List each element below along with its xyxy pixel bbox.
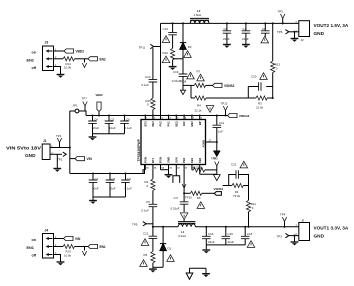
- svg-text:FB1: FB1: [190, 157, 194, 163]
- test point TP7: [82, 97, 88, 111]
- svg-text:GND: GND: [314, 31, 325, 36]
- svg-text:1uF: 1uF: [218, 130, 223, 134]
- svg-text:PV2: PV2: [159, 121, 163, 127]
- svg-text:PGN: PGN: [143, 157, 147, 163]
- capacitor C21 (fb1 zero): [229, 162, 249, 185]
- resistor R13 10.0k: [63, 244, 75, 257]
- svg-text:J2: J2: [301, 38, 305, 42]
- svg-text:VSNS2: VSNS2: [224, 84, 235, 88]
- svg-text:VBD2: VBD2: [96, 93, 104, 97]
- svg-text:BT1: BT1: [151, 157, 155, 163]
- capacitor C13 (snubber): [163, 22, 177, 48]
- test point TP3: [277, 233, 299, 238]
- svg-text:FB2: FB2: [198, 157, 202, 163]
- svg-text:GND: GND: [167, 157, 171, 163]
- svg-text:EN2: EN2: [190, 121, 194, 127]
- capacitor C14 0.01uF (PH2 ac): [172, 70, 188, 86]
- svg-text:C12: C12: [143, 231, 149, 235]
- capacitor C5 10uF: [105, 114, 116, 133]
- VIN bus vertical wire: [69, 111, 71, 174]
- text VOUT1: [314, 225, 349, 238]
- test point stub on EN1 wire: [82, 247, 86, 256]
- svg-text:C20: C20: [251, 75, 257, 79]
- test point TP8: [211, 156, 219, 174]
- connector J4 (EN1 jumper): [43, 229, 58, 259]
- svg-text:22uF: 22uF: [208, 240, 215, 244]
- svg-text:PH1: PH1: [182, 157, 186, 163]
- net label VSNS1: [214, 187, 224, 195]
- capacitor C20 (fb zero): [248, 75, 272, 98]
- inductor L1 3.3uH: [178, 222, 195, 238]
- wire snubber1/D1 ground bus: [153, 266, 163, 268]
- wire C21 left node to VSNS1 area: [223, 185, 229, 187]
- svg-text:VOUT1 3.3V, 3A: VOUT1 3.3V, 3A: [314, 225, 349, 230]
- svg-text:C9: C9: [224, 27, 228, 31]
- note triangle above L1: [180, 213, 188, 220]
- svg-text:12: 12: [177, 167, 180, 169]
- test point TP5: [278, 9, 285, 24]
- svg-text:PH2: PH2: [151, 121, 155, 127]
- resistor R8 22.1k (fb1): [192, 165, 217, 172]
- ground below C1: [89, 197, 97, 204]
- note triangle below R10: [162, 56, 170, 63]
- net label VREG8: [227, 113, 250, 118]
- test point TP2: [57, 152, 66, 162]
- junction dots on VIN rail: [144, 115, 200, 117]
- note triangle below R5: [140, 260, 148, 267]
- svg-text:PGN: PGN: [159, 157, 163, 163]
- connector J3 (EN2 jumper): [43, 41, 58, 71]
- wire joining C1-C3 bottoms: [93, 196, 126, 198]
- svg-text:22uF: 22uF: [228, 240, 235, 244]
- capacitor C15 22uF: [222, 226, 235, 245]
- svg-text:EN2: EN2: [27, 58, 34, 62]
- svg-text:J4: J4: [45, 229, 49, 233]
- capacitor C10 0.1uF (bypass chain): [142, 48, 158, 98]
- inductor L2 1.5uH: [190, 9, 209, 23]
- wire joining C4-C6 bottoms: [93, 133, 125, 135]
- svg-text:PV1: PV1: [167, 121, 171, 127]
- svg-text:VIN: VIN: [87, 157, 93, 161]
- svg-text:TP9: TP9: [132, 222, 138, 226]
- svg-text:0.1uF: 0.1uF: [142, 83, 150, 87]
- svg-text:TPS54386PWP: TPS54386PWP: [137, 138, 141, 161]
- U1 top pin names: [143, 121, 201, 127]
- wire VIN line (bottom): [70, 165, 145, 174]
- svg-text:TP4: TP4: [280, 212, 286, 216]
- ground bus under U1 pins 14,13: [161, 170, 173, 178]
- wire VOUT1 rail: [195, 226, 298, 228]
- svg-text:0.1uF: 0.1uF: [125, 126, 133, 130]
- wire U1 pin16 to VIN line: [143, 170, 145, 174]
- ground drop from J1 pin2: [56, 154, 58, 168]
- svg-text:3.3uH: 3.3uH: [178, 234, 186, 238]
- svg-text:R5: R5: [144, 253, 148, 257]
- svg-text:EN2: EN2: [100, 57, 106, 61]
- resistor R5 (snubber1): [144, 251, 155, 267]
- test point TP1: [56, 134, 62, 147]
- wire joining C16-C18 bottoms: [206, 244, 245, 246]
- note triangle below C12: [141, 239, 149, 246]
- test point TP6: [277, 30, 299, 34]
- svg-text:C1: C1: [95, 177, 99, 181]
- ground below snubber: [169, 67, 177, 70]
- svg-text:13: 13: [169, 167, 172, 169]
- ground below snubber1: [149, 267, 157, 272]
- svg-text:J1: J1: [43, 139, 47, 143]
- svg-text:0.01uF: 0.01uF: [171, 207, 180, 211]
- wire snubber to D2 anode: [173, 58, 183, 60]
- note triangles near R7: [187, 72, 195, 79]
- wire J4 pin1 to VIN label: [54, 238, 64, 240]
- net label VBD2: [64, 49, 84, 54]
- svg-text:TP12: TP12: [221, 102, 228, 106]
- ground below J1: [53, 169, 61, 172]
- svg-text:0: 0: [147, 184, 149, 188]
- net label VSNS2: [213, 83, 235, 88]
- svg-text:VREG8: VREG8: [239, 114, 250, 118]
- ground below C9: [223, 45, 231, 48]
- svg-text:off: off: [32, 66, 37, 70]
- ground arrow below TP14 node: [180, 85, 185, 94]
- svg-text:C10: C10: [145, 75, 151, 79]
- test point TP11: [139, 44, 161, 49]
- svg-text:C18: C18: [247, 232, 253, 236]
- svg-text:TP6: TP6: [277, 30, 283, 34]
- U1 bottom pin stubs: [145, 165, 199, 202]
- net label VIN (J4): [64, 236, 82, 241]
- svg-text:R8 22.1k: R8 22.1k: [192, 165, 203, 169]
- svg-text:SEQ: SEQ: [174, 121, 178, 127]
- label on / EN1 / off: [27, 238, 37, 257]
- ground below C16: [202, 245, 210, 254]
- svg-text:C16: C16: [208, 232, 214, 236]
- wire VSNS2 node down to R4 row: [190, 85, 192, 98]
- ground below C7: [242, 45, 250, 48]
- test point stub on EN2 wire: [82, 59, 86, 68]
- wire U1 pin11 chain (PH1 sense): [182, 184, 186, 194]
- wire J1 pin1 to VIN bus: [50, 147, 70, 149]
- svg-text:AGND: AGND: [202, 140, 206, 148]
- net label VBD2 (rail): [96, 93, 104, 117]
- U1 top pin stubs: [145, 116, 199, 120]
- note triangle beside C21: [240, 161, 248, 168]
- svg-text:16: 16: [146, 167, 149, 169]
- wire PH2 vertical (to top rail): [160, 23, 162, 115]
- svg-text:VSNS1: VSNS1: [214, 187, 224, 191]
- wire J4 pin2: [54, 246, 64, 248]
- capacitor C1 10uF: [89, 172, 99, 197]
- svg-text:10.0k: 10.0k: [64, 253, 72, 257]
- resistor R1 73.2k: [229, 183, 249, 198]
- wire U1 pin9 to agnd arrow: [200, 173, 217, 175]
- wire top rail PH2/VOUT2: [161, 22, 299, 24]
- op-amp U1 TPS54386PWP body: [137, 120, 206, 165]
- capacitor C7 22uF: [242, 22, 251, 44]
- svg-text:BP: BP: [198, 121, 202, 125]
- test point TP4: [280, 212, 287, 227]
- diode D2: [180, 22, 192, 58]
- svg-text:0: 0: [276, 67, 278, 71]
- svg-text:C2: C2: [112, 177, 116, 181]
- wire J3 pin2: [54, 58, 64, 60]
- svg-text:BT2: BT2: [143, 121, 147, 127]
- ground below J2 pin1: [291, 31, 299, 42]
- resistor R15 0 (bypass chain): [146, 98, 155, 117]
- svg-text:11: 11: [185, 167, 188, 169]
- capacitor C17 0.01uF (PH1 ac): [171, 202, 189, 212]
- svg-text:VIN 5Vto 18V: VIN 5Vto 18V: [6, 146, 41, 151]
- svg-text:10uF: 10uF: [93, 126, 100, 130]
- svg-text:0: 0: [252, 206, 254, 210]
- test point TP9: [132, 222, 153, 227]
- svg-text:73.2k: 73.2k: [233, 194, 241, 198]
- connector J2: [296, 21, 310, 42]
- svg-text:JP1: JP1: [73, 104, 78, 108]
- svg-text:10uF: 10uF: [109, 126, 116, 130]
- wire J3 pin1 to VBD2: [54, 50, 65, 52]
- resistor R6 (to VSNS1): [184, 191, 214, 200]
- svg-text:C15: C15: [228, 232, 234, 236]
- analog ground arrow below C11: [213, 151, 220, 161]
- ground below C4: [89, 134, 97, 141]
- U1 bottom pin names: [143, 157, 201, 163]
- resistor R12 (feedback top): [271, 22, 281, 98]
- svg-text:C17: C17: [174, 197, 179, 200]
- resistor R3 21.5k: [248, 96, 273, 110]
- net label EN1: [88, 244, 106, 249]
- svg-text:10uF: 10uF: [92, 187, 99, 191]
- svg-text:VBD2: VBD2: [76, 50, 85, 54]
- svg-text:ILM: ILM: [182, 121, 186, 126]
- open jumper under U1 pin 12: [173, 176, 180, 183]
- svg-text:TP14: TP14: [180, 80, 187, 84]
- resistor R2 (boot1): [145, 170, 155, 205]
- analog ground arrow (pin9 node): [213, 175, 220, 181]
- svg-text:TP1: TP1: [56, 134, 62, 138]
- svg-text:C13: C13: [163, 27, 169, 31]
- capacitor C4 10uF: [88, 114, 99, 133]
- resistor R10 (snubber): [163, 48, 175, 66]
- svg-text:C4: C4: [94, 118, 98, 122]
- ground below J3: [57, 75, 65, 78]
- svg-text:on: on: [32, 238, 36, 242]
- svg-text:D2: D2: [188, 45, 192, 49]
- svg-text:R6: R6: [197, 196, 201, 200]
- svg-text:off: off: [32, 253, 37, 257]
- svg-text:J5: J5: [301, 218, 305, 222]
- svg-text:0.1uF: 0.1uF: [142, 209, 150, 213]
- svg-text:R4: R4: [197, 104, 201, 108]
- capacitor C3 0.1uF: [121, 172, 132, 197]
- svg-text:R10: R10: [163, 51, 169, 55]
- svg-text:R7: R7: [197, 70, 201, 74]
- svg-text:J3: J3: [45, 41, 49, 45]
- svg-text:15: 15: [154, 167, 157, 169]
- wire R13 to EN1 label: [75, 246, 89, 248]
- test point TP12: [221, 102, 228, 117]
- capacitor C5b 0.1uF (boot1): [142, 200, 158, 227]
- net label EN2: [88, 57, 106, 62]
- svg-text:22.1k: 22.1k: [195, 109, 203, 113]
- svg-text:0: 0: [147, 103, 149, 107]
- wire C17 to L1: [183, 219, 185, 221]
- svg-text:C3: C3: [127, 177, 131, 181]
- svg-text:on: on: [32, 51, 36, 55]
- svg-text:GND: GND: [25, 153, 36, 158]
- svg-text:10.0k: 10.0k: [64, 66, 72, 70]
- wire J4 pin3 to ground: [54, 255, 61, 262]
- ground below J5 pin2: [291, 235, 299, 246]
- svg-text:VIN: VIN: [75, 237, 81, 241]
- svg-text:D1: D1: [168, 247, 172, 251]
- wire J1 pin2: [50, 153, 62, 155]
- connector J1: [42, 139, 53, 159]
- svg-text:21.5k: 21.5k: [256, 106, 264, 110]
- spare ground tie symbols: [186, 268, 210, 279]
- label on / EN2 / off: [27, 51, 37, 70]
- note triangle below C13: [162, 36, 170, 43]
- input text VIN 5V to 18V / GND: [6, 146, 41, 158]
- svg-text:C5: C5: [111, 118, 115, 122]
- svg-text:C7: C7: [243, 27, 247, 31]
- svg-text:GND: GND: [314, 234, 325, 239]
- resistor R7 (to VSNS2): [183, 83, 213, 87]
- svg-text:TP10: TP10: [185, 195, 192, 199]
- net label VIN (bus): [70, 157, 93, 162]
- svg-text:C19: C19: [173, 70, 179, 74]
- note triangle after R4: [206, 106, 214, 113]
- svg-text:TP2: TP2: [57, 158, 63, 162]
- U1 top pin numbers: [146, 117, 202, 120]
- note triangle beside C20: [260, 73, 268, 80]
- note triangle below D2: [184, 51, 192, 58]
- capacitor C6 0.1uF: [120, 114, 132, 133]
- capacitor C8 22uF: [261, 22, 270, 36]
- note triangle below D1: [167, 255, 175, 262]
- resistor R11 (fb1 bottom): [246, 186, 256, 228]
- capacitor C9 22uF: [223, 22, 232, 44]
- svg-text:SYN: SYN: [174, 157, 178, 163]
- capacitor C18: [241, 226, 253, 245]
- wire PH1 node: [153, 226, 178, 228]
- svg-text:TP3: TP3: [277, 234, 283, 238]
- svg-text:C5: C5: [146, 200, 150, 204]
- U1 right side pin 17: [202, 139, 217, 147]
- capacitor C11 1uF: [213, 114, 225, 151]
- connector J5: [296, 218, 310, 240]
- svg-text:1.5uH: 1.5uH: [194, 13, 202, 17]
- diode D1: [160, 226, 172, 268]
- note triangle below R6: [197, 202, 205, 209]
- svg-text:TP5: TP5: [278, 9, 284, 13]
- capacitor C16 22uF: [202, 226, 215, 245]
- note triangle below C18: [247, 241, 255, 248]
- svg-text:C21: C21: [231, 162, 237, 166]
- svg-text:TP7: TP7: [82, 97, 88, 101]
- wire R14 to EN2 label: [75, 58, 89, 60]
- svg-text:VOUT2 1.5V, 3A: VOUT2 1.5V, 3A: [314, 23, 349, 28]
- capacitor C12 (snubber1): [143, 226, 157, 252]
- capacitor C2 10uF: [106, 172, 116, 197]
- resistor R14 10.0k: [63, 57, 75, 70]
- svg-text:C11: C11: [219, 121, 224, 125]
- svg-text:14: 14: [161, 166, 164, 169]
- svg-text:TP11: TP11: [139, 45, 146, 49]
- wire D2 anode down to C10b: [182, 59, 184, 74]
- svg-text:TP8: TP8: [211, 156, 217, 160]
- svg-text:10uF: 10uF: [109, 187, 116, 191]
- svg-text:EN1: EN1: [27, 246, 34, 250]
- svg-text:EN1: EN1: [100, 245, 106, 249]
- jumper JP1: [70, 104, 86, 116]
- U1 bottom pin numbers: [146, 166, 202, 169]
- ground below J4: [57, 262, 65, 265]
- svg-text:C6: C6: [126, 118, 130, 122]
- wire VIN rail (top): [86, 115, 227, 117]
- resistor R4 22.1k: [191, 96, 248, 113]
- wire J3 pin3 to ground: [54, 67, 61, 75]
- text VOUT2: [314, 23, 349, 36]
- svg-text:C8: C8: [262, 27, 266, 31]
- note triangle below C8: [261, 36, 269, 43]
- svg-text:0.1uF: 0.1uF: [125, 187, 133, 191]
